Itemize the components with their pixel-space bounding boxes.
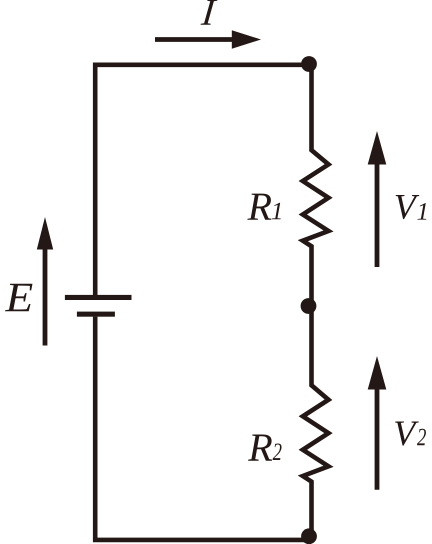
label V1: [396, 195, 420, 219]
node: top-right junction dot: [301, 56, 317, 72]
label I: [201, 0, 218, 25]
label R2: [248, 435, 272, 461]
node: bottom-right junction dot: [301, 528, 317, 544]
label R1: [247, 194, 271, 220]
arrow: current I (points right): [155, 30, 261, 49]
wire: top + left down to battery: [95, 65, 309, 295]
battery E: short plate: [77, 312, 115, 317]
label E: [5, 284, 33, 312]
wire: below battery + bottom: [95, 317, 309, 540]
wire + resistor R1 zigzag + wire + resistor R2 zigzag (right branch): [303, 65, 329, 539]
node: middle junction dot between R1 and R2: [301, 298, 317, 314]
battery E: long plate: [65, 295, 132, 300]
arrow: source voltage E (points up): [37, 217, 53, 346]
arrow: voltage V1 (points up): [368, 131, 387, 267]
arrow: voltage V2 (points up): [368, 356, 387, 490]
label V2: [395, 422, 419, 446]
